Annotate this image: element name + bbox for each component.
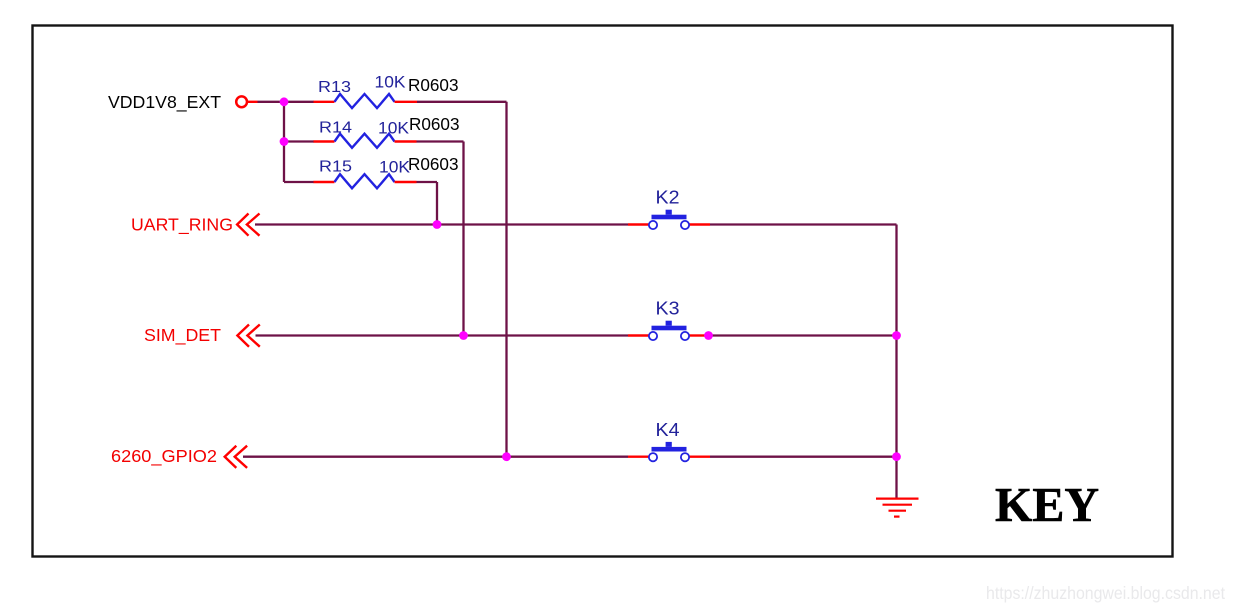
junction UART_RING / R15 column (437,224.5): [433, 220, 442, 229]
svg-text:SIM_DET: SIM_DET: [144, 325, 221, 346]
svg-text:R15: R15: [319, 158, 352, 175]
wire node A bottom corner to R15 pin1: [284, 181, 314, 183]
junction common rail / SIM_DET row (896.5,335.5): [892, 331, 901, 340]
svg-text:https://zhuzhongwei.blog.csdn.: https://zhuzhongwei.blog.csdn.net: [986, 583, 1225, 603]
svg-text:UART_RING: UART_RING: [131, 215, 233, 236]
wire K3 pin2 to common rail: [709, 334, 897, 336]
junction K3 pin2 stub (708.5,335.5): [704, 331, 713, 340]
svg-text:10K: 10K: [378, 119, 409, 137]
wire R15 pin2 to column x=437: [417, 181, 438, 183]
svg-text:R14: R14: [319, 119, 352, 136]
power terminal circle (VDD1V8_EXT pin): [236, 96, 247, 107]
pushbutton K2: [628, 210, 710, 229]
svg-text:10K: 10K: [379, 159, 410, 177]
resistor R13: [314, 94, 418, 108]
wire node B to R14 pin1: [284, 140, 314, 142]
junction common rail / 6260_GPIO2 row (896.5,456.5): [892, 452, 901, 461]
svg-text:10K: 10K: [375, 74, 406, 92]
resistor R14: [314, 134, 417, 148]
svg-text:R0603: R0603: [408, 75, 459, 95]
svg-text:R0603: R0603: [408, 154, 459, 174]
wire VDD terminal to node A: [258, 101, 285, 103]
wire common ground rail x=896.5: [895, 225, 897, 499]
svg-text:R0603: R0603: [409, 114, 460, 134]
port chevron SIM_DET: [237, 325, 259, 347]
wire R14 pin2 to column x=463.5: [417, 140, 464, 142]
svg-text:K3: K3: [656, 297, 680, 318]
wire node A to R13 pin1: [284, 101, 314, 103]
svg-text:K4: K4: [656, 419, 680, 440]
resistor R15: [314, 174, 417, 188]
wire UART_RING net to K2 pin1: [255, 223, 628, 225]
svg-text:VDD1V8_EXT: VDD1V8_EXT: [108, 92, 221, 113]
junction SIM_DET / R14 column (463.5,335.5): [459, 331, 468, 340]
ground symbol: [876, 499, 919, 517]
svg-text:R13: R13: [318, 79, 351, 96]
wire SIM_DET net to K3 pin1: [256, 334, 629, 336]
wire vertical column x=437 down to UART_RING net: [436, 182, 438, 225]
wire R13 pin2 to column x=506.5: [417, 101, 507, 103]
pushbutton K3: [628, 321, 705, 340]
wire vertical VDD bus x=284: [283, 102, 285, 182]
wire K2 pin2 to common rail: [710, 223, 897, 225]
svg-text:K2: K2: [656, 186, 680, 207]
port chevron UART_RING: [237, 214, 259, 236]
wire 6260_GPIO2 net to K4 pin1: [243, 456, 628, 458]
wire vertical column x=506.5 down to 6260_GPIO2 net: [505, 102, 507, 457]
wire vertical column x=463.5 down to SIM_DET net: [462, 142, 464, 336]
pin stub from VDD terminal: [248, 101, 258, 103]
svg-text:6260_GPIO2: 6260_GPIO2: [111, 446, 217, 467]
junction node A (284,102): [280, 97, 289, 106]
svg-text:KEY: KEY: [995, 479, 1099, 532]
junction 6260_GPIO2 / R13 column (506.5,456.5): [502, 452, 511, 461]
port chevron 6260_GPIO2: [225, 446, 247, 468]
junction node B (284,141.5): [280, 137, 289, 146]
wire K4 pin2 to common rail: [710, 456, 897, 458]
pushbutton K4: [628, 442, 710, 461]
